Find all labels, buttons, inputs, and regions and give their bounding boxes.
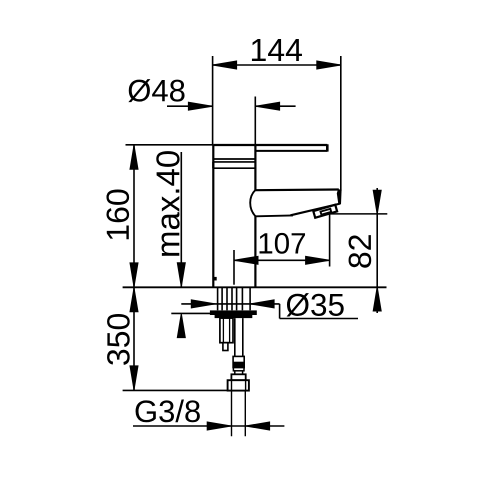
hose crimp box <box>233 356 244 367</box>
shank lines below deck <box>218 288 251 310</box>
drain tick on body left <box>213 277 216 281</box>
dimension 82 line <box>376 188 378 313</box>
label 350 <box>107 314 130 365</box>
compression ring <box>231 374 245 380</box>
hose band <box>233 368 244 371</box>
arrow 160 top <box>130 145 138 169</box>
arrow max40 bottom <box>177 314 185 338</box>
wire bottom reference line <box>123 389 228 391</box>
arrow G38 left <box>207 422 231 430</box>
faucet collar bottom <box>213 167 255 169</box>
dimension O48 line <box>167 105 296 107</box>
faucet lever top <box>213 144 327 146</box>
label 107 <box>260 233 305 254</box>
extension line left <box>212 56 214 145</box>
dimension 160 line <box>133 145 135 287</box>
dimension O35 line <box>181 304 358 319</box>
label 144 <box>252 39 302 61</box>
arrow 144 right <box>317 61 341 69</box>
label 82 <box>349 235 372 268</box>
spout top <box>255 188 338 191</box>
arrow G38 right <box>246 422 270 430</box>
spout face slant <box>291 204 341 216</box>
arrow O35 right <box>250 300 274 308</box>
extension line right <box>340 56 342 191</box>
extension O48 right <box>254 97 256 146</box>
arrowheads <box>130 61 381 430</box>
arrow O48 right <box>256 102 280 110</box>
arrow O35 left <box>191 300 215 308</box>
spout underside <box>256 214 294 217</box>
arrow max40 top <box>177 263 185 287</box>
label max40 <box>156 151 179 256</box>
arrow 107 right <box>306 256 330 264</box>
short pipe <box>235 371 243 375</box>
arrow 107 left <box>234 256 258 264</box>
label O48 <box>128 79 184 102</box>
dimension 107 line <box>234 259 330 261</box>
lever top extension <box>126 144 214 146</box>
spout back curve <box>250 190 255 216</box>
aerator <box>313 205 337 218</box>
stud tip <box>223 343 228 351</box>
dimension 350 line <box>133 287 135 390</box>
faucet lever bottom <box>255 150 327 152</box>
washer lip <box>215 315 253 318</box>
lower pipe <box>232 391 246 437</box>
faucet body right <box>254 216 256 287</box>
spout tip wedge <box>337 189 342 204</box>
extension washer line <box>171 312 210 314</box>
faucet cap right <box>254 145 256 190</box>
label O35 <box>287 293 344 316</box>
label 160 <box>106 190 129 240</box>
supply pipe upper <box>235 318 243 356</box>
extension 107 left <box>233 250 235 285</box>
label G38 <box>136 400 200 423</box>
arrow 160 bottom <box>130 263 138 287</box>
arrow 350 top <box>130 288 138 312</box>
hex nut <box>228 380 249 390</box>
faucet lever end <box>326 144 329 151</box>
faucet body left <box>212 162 214 287</box>
faucet cap left <box>212 145 214 168</box>
stud inner lines <box>223 318 229 343</box>
washer plate <box>210 310 257 315</box>
faucet collar <box>213 161 255 163</box>
hex nut facets <box>232 380 246 390</box>
dimension max40 line <box>180 152 182 287</box>
arrow 82 bottom <box>373 287 381 311</box>
wire deck line <box>123 286 387 288</box>
extension 107 right <box>329 214 331 267</box>
dimension 144 line <box>126 56 378 426</box>
faucet cap bottom <box>213 158 255 160</box>
arrow 144 left <box>213 61 237 69</box>
arrow 82 top <box>373 190 381 214</box>
dimension G38 line <box>133 425 284 427</box>
hose crimp dark band <box>233 362 245 368</box>
wire outlet reference line <box>330 213 388 215</box>
arrow 350 bottom <box>130 366 138 390</box>
arrow O48 left <box>188 102 212 110</box>
stud body <box>220 318 233 343</box>
